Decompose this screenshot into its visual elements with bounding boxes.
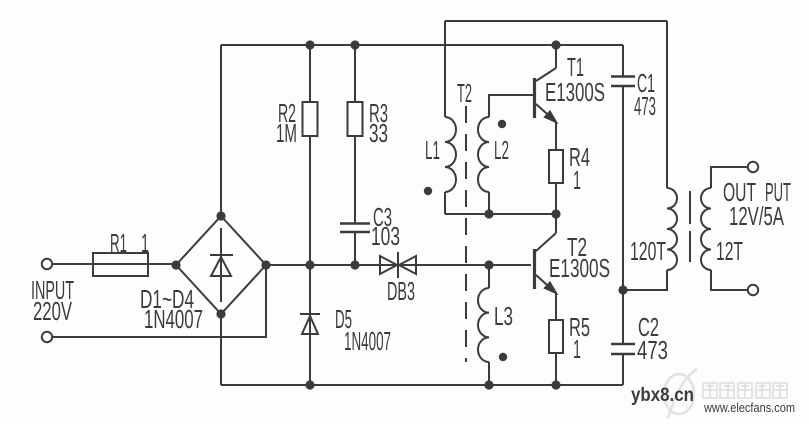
- svg-text:T2: T2: [457, 78, 472, 108]
- terminal: output bottom: [748, 285, 758, 295]
- junction: bridge bottom: [216, 309, 225, 318]
- svg-text:473: 473: [634, 91, 656, 121]
- svg-text:1: 1: [141, 228, 149, 258]
- svg-text:E1300S: E1300S: [549, 253, 610, 283]
- junction: bottom rail / R5: [551, 380, 560, 389]
- watermark logo circle: [664, 369, 697, 418]
- winding 12T secondary: [701, 167, 748, 290]
- svg-text:120T: 120T: [630, 236, 666, 266]
- winding L3: [478, 265, 489, 385]
- svg-text:12V/5A: 12V/5A: [729, 201, 784, 231]
- winding 120T primary: [667, 21, 677, 270]
- junction: bottom rail / D5: [305, 380, 314, 389]
- svg-text:DB3: DB3: [387, 276, 415, 306]
- terminal: AC input bottom: [42, 332, 52, 342]
- resistor R3: [348, 45, 363, 223]
- svg-text:1M: 1M: [276, 118, 297, 148]
- bridge inner diode: [210, 228, 233, 302]
- junction: top rail / R3: [350, 40, 359, 49]
- junction: C1-C2 node / 120T: [618, 285, 627, 294]
- svg-text:220V: 220V: [33, 296, 72, 326]
- svg-text:ybx8.cn: ybx8.cn: [631, 385, 694, 406]
- svg-text:12T: 12T: [716, 236, 743, 266]
- svg-text:1N4007: 1N4007: [344, 326, 391, 356]
- svg-text:www.elecfans.com: www.elecfans.com: [703, 400, 795, 415]
- capacitor C3: [340, 224, 370, 266]
- phase dot L1: [424, 187, 432, 195]
- wire: input top to bridge left: [53, 263, 177, 265]
- junction: top rail / R2: [305, 40, 314, 49]
- resistor R2: [303, 45, 318, 265]
- svg-text:R1: R1: [110, 228, 127, 258]
- transistor T2: [535, 214, 557, 320]
- svg-text:33: 33: [369, 118, 388, 148]
- svg-text:E1300S: E1300S: [545, 77, 605, 107]
- transistor T1: [535, 45, 557, 150]
- wire: bridge bottom to bottom rail: [220, 314, 222, 385]
- junction: bridge left: [171, 260, 180, 269]
- wire: bottom rail: [221, 384, 623, 386]
- diode D5: [300, 265, 320, 385]
- svg-text:L1: L1: [425, 135, 440, 165]
- wire: node to 120T bottom: [623, 270, 667, 290]
- bridge rectifier D1~D4 diamond: [176, 216, 266, 314]
- svg-text:1: 1: [573, 334, 581, 364]
- junction: bridge top: [216, 211, 225, 220]
- junction: top rail / T1 collector: [551, 40, 560, 49]
- capacitor C1: [611, 45, 635, 86]
- wire: emitter rail (L1/L2/R4 bottoms): [445, 213, 556, 215]
- diac DB3: [380, 252, 416, 278]
- resistor R5: [549, 320, 563, 385]
- junction: mid rail / C3: [350, 260, 359, 269]
- capacitor C2: [611, 290, 635, 385]
- svg-text:L3: L3: [494, 301, 513, 331]
- output transformer core: [689, 191, 691, 262]
- junction: mid rail / R2-D5: [305, 260, 314, 269]
- junction: bridge right: [261, 260, 270, 269]
- svg-text:103: 103: [371, 221, 400, 251]
- winding L1: [445, 21, 456, 214]
- resistor R1 (fusible, box over wire): [93, 253, 148, 276]
- svg-text:1: 1: [573, 165, 581, 195]
- wire: C1 bottom to node: [622, 86, 624, 290]
- wire: input bottom to bridge right: [53, 265, 267, 337]
- junction: mid rail / L3 top: [484, 260, 493, 269]
- wire: mid rail (bridge + to T2 base): [266, 264, 531, 266]
- phase dot L3: [499, 353, 507, 361]
- terminal: AC input top: [42, 259, 52, 269]
- resistor R4: [549, 150, 563, 214]
- phase dot L2: [498, 120, 506, 128]
- wire: top frame (L1 top to 120T top): [445, 20, 667, 22]
- junction: emitter rail / L2: [484, 209, 493, 218]
- wire: bridge top to top rail: [220, 45, 222, 216]
- svg-text:473: 473: [637, 335, 668, 365]
- winding L2: [478, 95, 533, 214]
- watermark Chinese characters: [703, 383, 787, 398]
- transformer T2 core: [465, 106, 467, 362]
- junction: bottom rail / L3: [484, 380, 493, 389]
- wire: top rail: [221, 44, 623, 46]
- terminal: output top: [748, 162, 758, 172]
- junction: emitter rail / R4: [551, 209, 560, 218]
- svg-text:1N4007: 1N4007: [144, 304, 203, 334]
- svg-text:L2: L2: [494, 135, 509, 165]
